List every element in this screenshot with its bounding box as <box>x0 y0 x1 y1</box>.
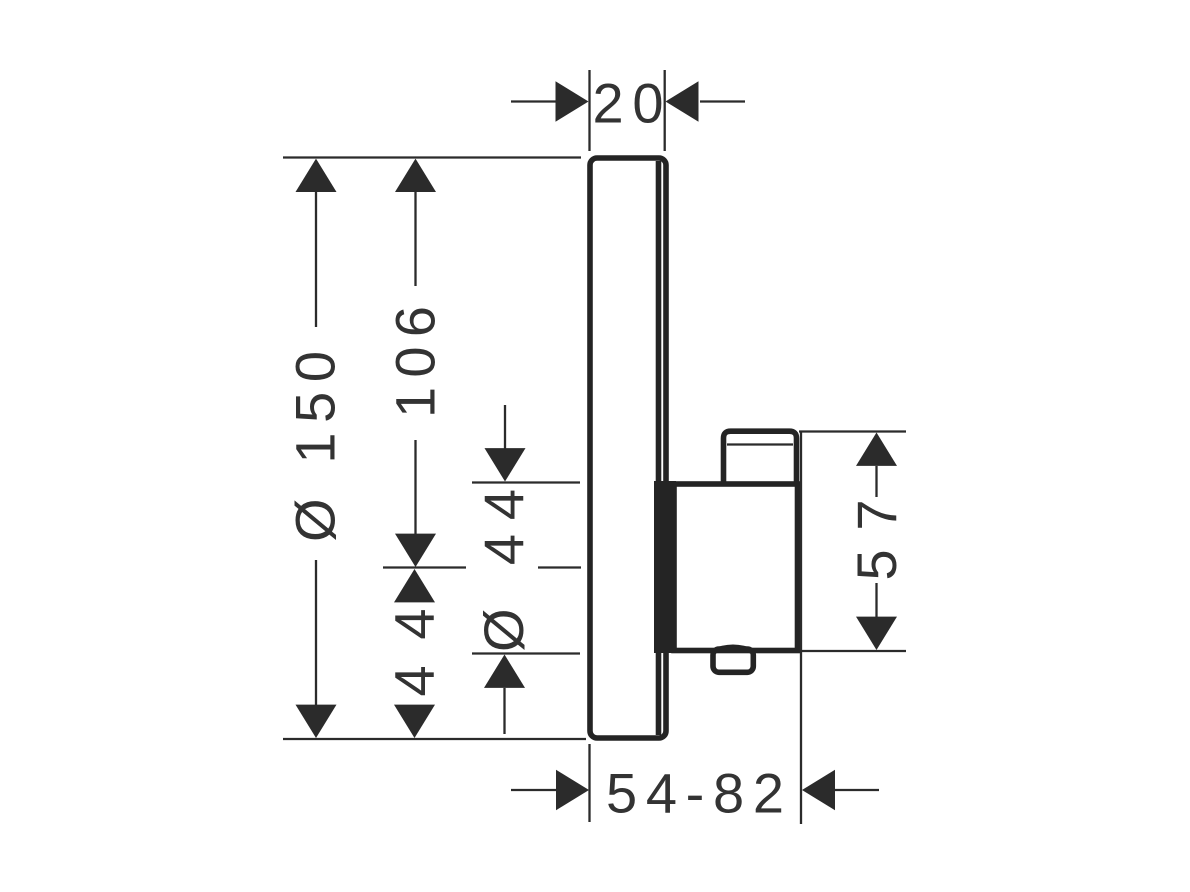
dimension 54-82: right arrow <box>802 770 835 811</box>
dimension 106: upper stem <box>414 192 416 286</box>
svg-text:Ø 150: Ø 150 <box>284 351 347 542</box>
dimension 44: bottom arrow <box>394 705 435 738</box>
temperature knob outline <box>724 431 797 486</box>
dimension 20: right leader <box>700 100 745 102</box>
dimension O150: upper stem <box>315 192 317 327</box>
dimension 106: bottom arrow <box>395 534 436 567</box>
plate outline (wall plate slab, side view) <box>590 158 666 738</box>
extension line 20-dim left vertical <box>588 70 590 151</box>
plate/body junction dark band <box>654 481 676 653</box>
dimension O150: top arrow <box>296 159 337 192</box>
extension line 54-82 right vertical <box>800 432 802 824</box>
dimension 20: left arrow <box>556 81 589 122</box>
valve body right edge bulge <box>797 488 801 647</box>
dimension O44: bottom arrow <box>484 655 525 688</box>
bottom tab outline <box>713 649 753 672</box>
extension line body top (O44 dim) <box>472 481 580 483</box>
dimension O44: top arrow <box>485 448 526 481</box>
valve centerline left segment <box>383 566 466 568</box>
dimension 20: left leader <box>511 100 556 102</box>
extension line 57-dim bottom horizontal <box>800 650 906 652</box>
dimension 54-82: left arrow <box>556 770 589 811</box>
dimension 106: lower stem <box>414 440 416 534</box>
extension line 54-82 left vertical <box>588 744 590 822</box>
dimension O150: bottom arrow <box>296 705 337 738</box>
dimension 20: right arrow <box>666 81 699 122</box>
dimension 57: lower stem <box>875 583 877 617</box>
plate front-face inner edge line <box>656 161 662 735</box>
valve body outline <box>674 484 798 651</box>
svg-text:54-82: 54-82 <box>606 762 784 825</box>
dimension O150: lower stem <box>315 560 317 706</box>
dimension 57: bottom arrow <box>856 617 897 650</box>
dimension 106: top arrow <box>395 159 436 192</box>
svg-text:106: 106 <box>384 306 447 418</box>
dimension 54-82: right leader <box>835 789 879 791</box>
extension line 20-dim right vertical <box>664 70 666 151</box>
extension line bottom-left horizontal (plate bottom level) <box>283 738 586 740</box>
knob cap seam line <box>727 443 793 445</box>
extension line top-left horizontal (plate top level) <box>283 156 581 158</box>
extension line body bottom (O44 dim) <box>472 652 580 654</box>
dimension 57: top arrow <box>856 433 897 466</box>
dimension 57: upper stem <box>875 466 877 497</box>
valve centerline right segment <box>538 566 581 568</box>
dimension 54-82: left leader <box>511 789 557 791</box>
dimension 44: top arrow <box>394 569 435 602</box>
dimension O44: upper stem <box>504 405 506 450</box>
bottom tab top arc <box>712 647 754 652</box>
dimension O44: lower stem <box>503 688 505 734</box>
extension line 57-dim top horizontal <box>799 430 906 432</box>
